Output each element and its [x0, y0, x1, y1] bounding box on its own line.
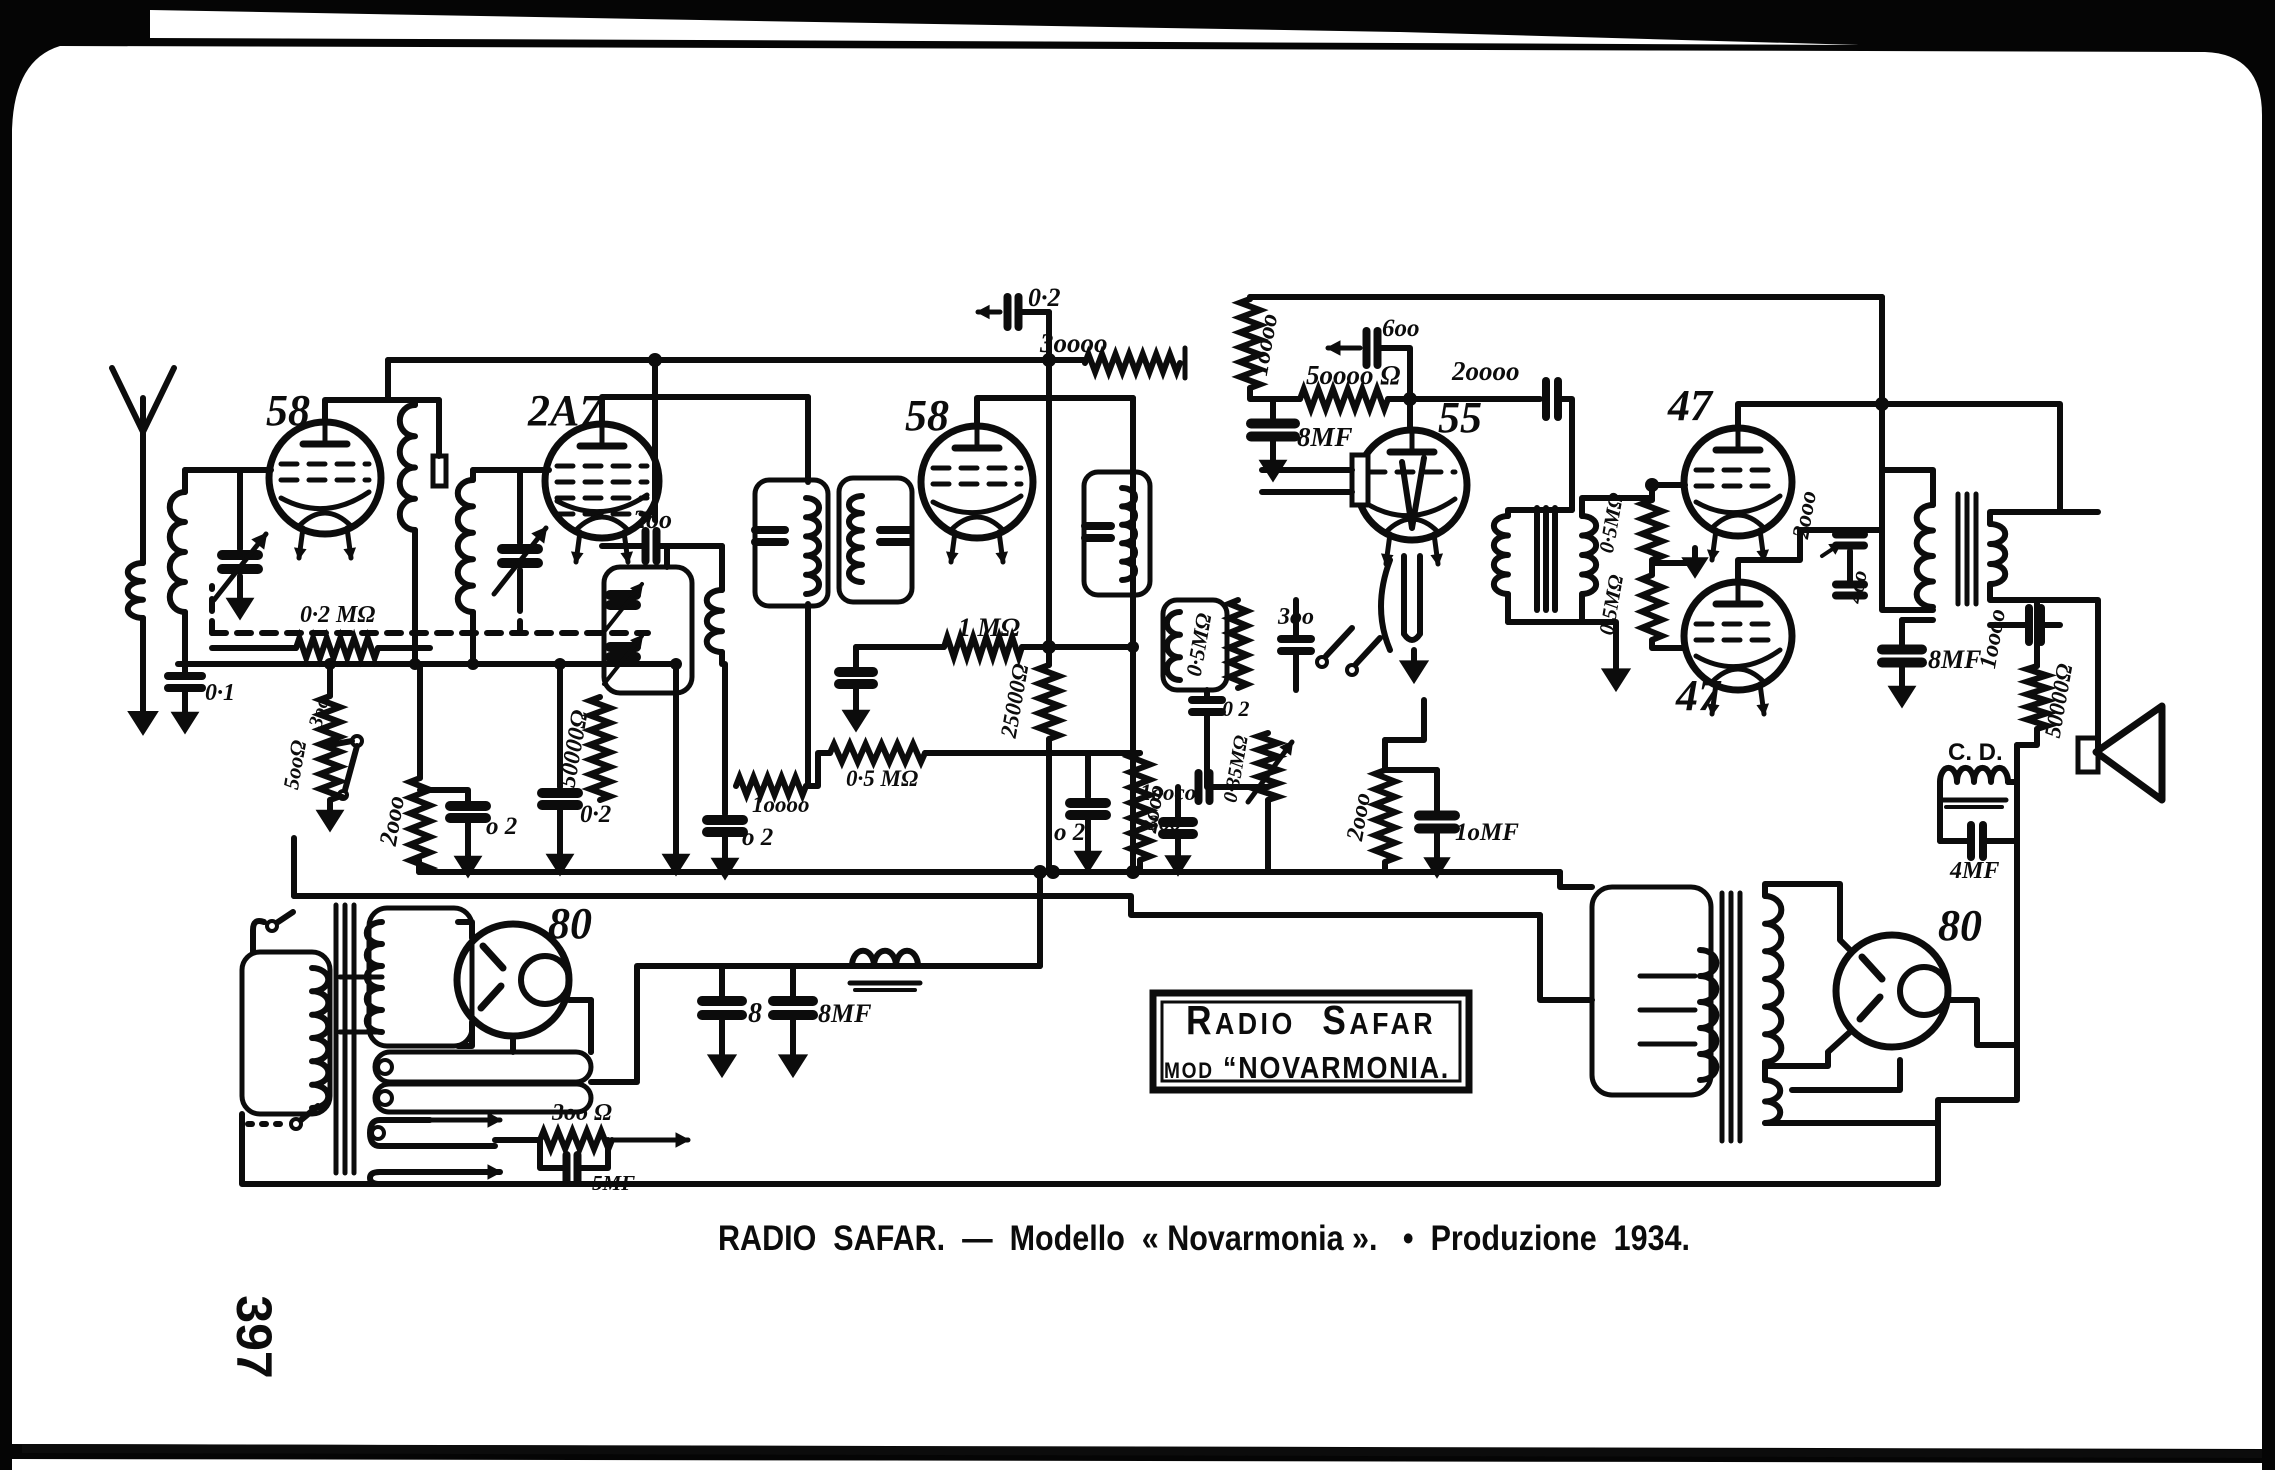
wire 50000 to 20000 cap	[1410, 396, 1540, 402]
label box	[1153, 993, 1469, 1090]
resistor 50000 below tank	[590, 697, 610, 800]
wire bus mid	[178, 661, 676, 667]
resistor 0.5M vertical mid	[1229, 600, 1247, 688]
ground e	[1085, 841, 1091, 855]
resistor 50000 field	[2034, 600, 2040, 666]
ground 8mf a	[1270, 450, 1276, 464]
vertical x655	[652, 360, 658, 520]
80b cathode	[1946, 1000, 2017, 1045]
tube cathode	[1369, 499, 1455, 516]
tube 80 anodes	[1862, 957, 1882, 979]
oscillator tank box	[604, 567, 692, 693]
80a filament loop 2	[375, 1084, 591, 1112]
antenna coil	[128, 563, 143, 618]
tank variable cap 1	[610, 590, 636, 600]
svg-text:1oooo: 1oooo	[752, 792, 810, 817]
resistor 10000 vertical	[1247, 297, 1253, 299]
vertical x676 ground	[673, 664, 679, 846]
svg-text:58: 58	[905, 391, 949, 440]
resistor 2000 right of 55	[1375, 770, 1395, 862]
capacitor 0.2 top	[978, 310, 1000, 315]
HV secondary box	[369, 908, 472, 1046]
resistor 300 + 500 pot	[327, 664, 333, 696]
tube top cap	[303, 441, 347, 448]
bottom bus y1184	[242, 1114, 1938, 1184]
ground avc cap	[853, 700, 859, 714]
capacitor B 8	[702, 996, 742, 1006]
tube pins	[299, 528, 303, 558]
mains switch	[253, 921, 264, 952]
capacitor 400 tone	[1836, 581, 1864, 589]
tube pins	[576, 532, 580, 562]
ground c	[673, 844, 679, 858]
resistor 10000 horizontal	[736, 777, 806, 795]
tube pins	[951, 532, 955, 562]
tube 55 envelope	[1357, 430, 1467, 540]
bus B y896	[294, 896, 1540, 915]
IF transformer T2 box	[839, 478, 912, 602]
IF transformer T1 box	[755, 480, 828, 606]
svg-text:4MF: 4MF	[1949, 858, 1999, 884]
variable capacitor C2	[517, 470, 523, 543]
tube grids	[1696, 622, 1780, 627]
capacitor 600 and arrow	[1328, 346, 1360, 351]
output transformer core	[1956, 494, 1961, 604]
B+ top line to output	[1882, 404, 2098, 512]
svg-text:o 2: o 2	[1054, 819, 1085, 846]
bus into right transformer	[1540, 915, 1592, 1000]
top bus B1	[388, 357, 1085, 363]
tube grids	[933, 466, 1021, 471]
ground 8mf c	[790, 1044, 796, 1059]
svg-text:8MF: 8MF	[1928, 645, 1981, 674]
capacitor 0.1	[168, 672, 202, 680]
T3 capacitor	[1085, 522, 1111, 530]
svg-text:3oo Ω: 3oo Ω	[551, 1100, 612, 1126]
svg-text:RADIO SAFAR. — Modello « N: RADIO SAFAR. — Modello « Novarmonia ». •…	[718, 1219, 1690, 1258]
power transformer primary coil	[312, 968, 328, 1108]
tube pins	[1386, 534, 1390, 564]
T2 capacitor	[880, 526, 910, 534]
capacitor 8MF b	[1882, 645, 1922, 655]
oscillator coil	[400, 405, 415, 530]
svg-text:5oooo Ω: 5oooo Ω	[1306, 360, 1400, 390]
tank variable cap 2	[610, 642, 636, 652]
wire top cap 47b	[1738, 530, 1882, 580]
vertical x1133	[1130, 398, 1136, 872]
right secondary coil	[1765, 896, 1781, 1062]
capacitor 0.2 avc	[853, 647, 859, 668]
choke output 80a	[588, 1000, 594, 1052]
tube cathode	[1696, 496, 1780, 513]
T1 capacitor	[755, 526, 785, 534]
right transformer primary coil	[1700, 950, 1716, 1080]
right transformer core	[1720, 893, 1725, 1141]
tube grids	[1369, 470, 1455, 475]
tube top cap	[1716, 601, 1760, 608]
svg-text:0·2 MΩ: 0·2 MΩ	[300, 602, 375, 628]
wire top cap V1	[325, 360, 388, 422]
pot 0.35M	[1258, 733, 1278, 800]
coil L2	[470, 470, 476, 480]
resistor 2000 b vertical	[1130, 753, 1150, 860]
svg-text:C. D.: C. D.	[1948, 739, 2003, 766]
wire 47 plates to output transformer	[1882, 470, 1933, 505]
80a plate wires	[458, 922, 472, 938]
capacitor 300 low	[1163, 817, 1193, 827]
ground under pot	[327, 800, 333, 814]
T3 lower coil	[1167, 612, 1180, 680]
resistor 2000 vertical	[417, 664, 423, 778]
power transformer primary box	[242, 952, 330, 1114]
wire grid 47b	[1652, 640, 1685, 648]
T1 coil	[806, 498, 819, 594]
svg-text:2oo: 2oo	[632, 505, 672, 534]
wire y647 AVC	[856, 644, 944, 650]
HV secondary coil	[367, 922, 382, 1032]
switch arms	[1317, 657, 1327, 667]
tube 80 envelope	[1836, 935, 1948, 1047]
ground 10mf	[1434, 848, 1440, 862]
wire grid 47a	[1652, 482, 1685, 488]
tube top cap	[1716, 447, 1760, 454]
ground under 55	[1411, 650, 1417, 665]
tube 80 filament	[1900, 967, 1948, 1015]
ground under C1	[237, 588, 243, 602]
capacitor 0.2 b	[557, 664, 563, 787]
ground a	[465, 846, 471, 860]
capacitor 8MF a	[1270, 399, 1276, 418]
IF transformer T3 box	[1084, 472, 1150, 595]
capacitor 0.2 c	[722, 664, 728, 814]
wire bus A left end	[416, 860, 422, 872]
top bus right y297	[1250, 294, 1882, 300]
capacitor 200	[642, 531, 650, 561]
HV taps	[340, 975, 382, 980]
tube grids	[281, 462, 369, 467]
ground interstage	[1613, 658, 1619, 673]
ground d	[722, 848, 728, 862]
svg-text:0·2: 0·2	[580, 801, 611, 828]
mains dots	[248, 1121, 288, 1127]
right secondary lower loop	[1765, 1080, 1780, 1123]
tube grids	[557, 464, 647, 469]
svg-text:47: 47	[1667, 381, 1714, 430]
tube 80 filament	[521, 956, 569, 1004]
ground tap 0.5M	[1652, 560, 1695, 566]
dash gang line	[212, 630, 648, 636]
svg-text:397: 397	[226, 1295, 282, 1378]
output transformer secondary	[1990, 524, 2005, 584]
tube cathode	[1696, 650, 1780, 667]
right primary taps	[1640, 974, 1695, 979]
tube 47 envelope	[1684, 582, 1792, 690]
wire to 55 top cap	[1407, 399, 1413, 428]
tube cathode	[281, 492, 369, 509]
svg-text:8: 8	[748, 998, 762, 1029]
svg-text:55: 55	[1438, 393, 1482, 442]
svg-text:1ooco: 1ooco	[1140, 780, 1196, 805]
55 triode V	[1402, 458, 1424, 528]
vertical x1882	[1879, 297, 1885, 530]
B+ riser	[1037, 872, 1043, 966]
55 diode load U	[1404, 556, 1420, 640]
ground b	[557, 844, 563, 858]
tube 58 envelope	[921, 426, 1033, 538]
svg-text:o 2: o 2	[742, 824, 773, 851]
power transformer core	[334, 905, 339, 1173]
tube 80 envelope	[457, 924, 569, 1036]
interstage secondary	[1582, 516, 1596, 594]
tube 58 envelope	[269, 422, 381, 534]
svg-text:0·5 MΩ: 0·5 MΩ	[846, 766, 918, 791]
ground 300 low	[1175, 846, 1181, 860]
wire osc coil top	[388, 400, 439, 405]
interstage transformer primary	[1508, 510, 1572, 516]
T3 lower box	[1163, 600, 1227, 690]
capacitor 0.2 d	[1085, 753, 1091, 797]
svg-text:8MF: 8MF	[818, 999, 871, 1028]
wire top cap V3	[977, 398, 1133, 426]
T2 coil	[849, 496, 862, 582]
wire top cap 47a	[1738, 404, 1882, 426]
capacitor 10MF	[1419, 811, 1455, 821]
80b plate wires	[1840, 908, 1850, 950]
svg-text:2oooo: 2oooo	[1451, 356, 1520, 386]
heater loop 2	[370, 1172, 495, 1184]
antenna	[112, 368, 174, 432]
svg-text:3oo: 3oo	[1147, 810, 1181, 835]
capacitor 4MF	[1967, 825, 1975, 857]
B+ wire from 80a	[637, 966, 1040, 1080]
bus A y872	[419, 869, 1560, 875]
80a filament loop 1	[375, 1052, 591, 1082]
capacitor 0.2 a	[420, 790, 468, 802]
resistor 0.5M grid a	[1649, 485, 1655, 500]
coil L1 primary	[182, 470, 188, 492]
svg-text:0·2: 0·2	[1028, 283, 1061, 312]
slug rect	[433, 456, 446, 486]
padder coil	[719, 546, 725, 590]
55 curve arm	[1381, 560, 1390, 650]
speaker	[2096, 706, 2162, 800]
vertical V1 long x1049	[1046, 312, 1052, 665]
resistor 0.5M horizontal	[806, 753, 830, 786]
capacitor 5MF	[540, 1140, 566, 1168]
tube pins	[1712, 530, 1716, 560]
wire grid node	[185, 467, 271, 473]
resistor 50000 horizontal	[1250, 388, 1300, 399]
pot switch	[352, 736, 362, 746]
speaker voice coil	[2078, 738, 2098, 772]
wire top cap V2	[602, 397, 808, 424]
80a cathode wire	[569, 1000, 591, 1052]
tube 80 anodes	[483, 946, 503, 968]
vertical x808	[805, 397, 811, 482]
svg-text:6oo: 6oo	[1382, 315, 1420, 342]
antenna ground	[140, 700, 146, 716]
T3 coil	[1122, 488, 1135, 580]
choke filter	[852, 951, 918, 966]
svg-text:1oMF: 1oMF	[1455, 819, 1519, 846]
capacitor 8MF c	[773, 996, 813, 1006]
55 grid stubs	[1352, 455, 1368, 505]
ground 8mf b	[1899, 676, 1905, 690]
heater loop 1	[370, 1120, 495, 1146]
capacitor 0.2 mid	[1192, 696, 1222, 704]
tube top cap	[580, 443, 624, 450]
ground under 0.1	[182, 702, 188, 716]
svg-text:0 2: 0 2	[1222, 696, 1250, 721]
svg-text:o 2: o 2	[486, 813, 517, 840]
variable capacitor C1	[237, 470, 243, 549]
right transformer primary box	[1592, 887, 1711, 1095]
tube cathode	[557, 495, 647, 512]
output transformer primary	[1917, 505, 1933, 607]
tube top cap	[955, 445, 999, 452]
tube 2A7 envelope	[545, 424, 659, 538]
tube cathode	[933, 496, 1021, 513]
tube top cap	[1390, 449, 1434, 456]
tube pins	[1712, 684, 1716, 714]
interstage core	[1534, 508, 1540, 610]
vertical x2017	[2014, 745, 2020, 841]
tube 47 envelope	[1684, 428, 1792, 536]
tube grids	[1696, 468, 1780, 473]
80b heater wires	[1765, 1100, 2017, 1123]
svg-text:0·1: 0·1	[205, 680, 235, 706]
svg-text:3oooo: 3oooo	[1039, 328, 1108, 358]
svg-text:8MF: 8MF	[1297, 422, 1353, 452]
ground B	[719, 1044, 725, 1059]
svg-text:80: 80	[1938, 901, 1982, 950]
